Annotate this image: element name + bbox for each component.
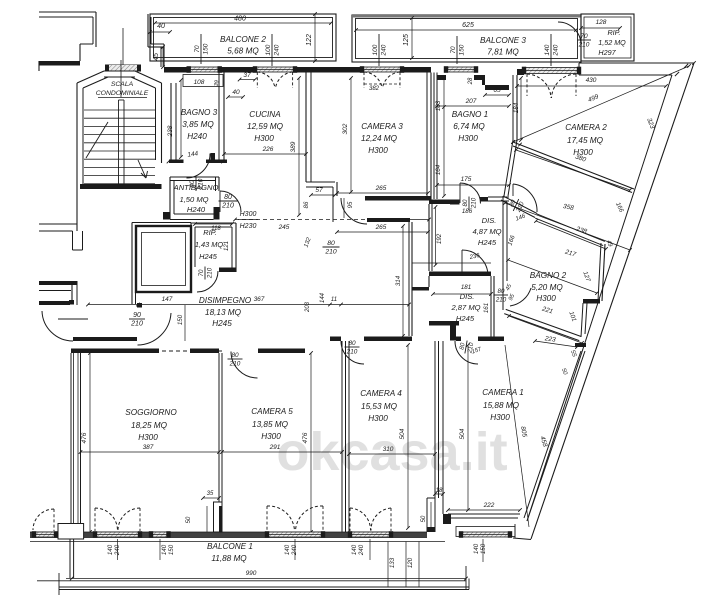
svg-text:CAMERA 3: CAMERA 3 <box>361 122 403 131</box>
label 382 <box>364 84 400 92</box>
svg-text:265: 265 <box>375 224 387 231</box>
svg-text:147: 147 <box>162 296 173 303</box>
door entrance right <box>138 313 172 345</box>
door camera3 bottom <box>341 198 367 224</box>
svg-text:BALCONE 1: BALCONE 1 <box>207 542 253 551</box>
wall stair enclosure <box>77 71 162 231</box>
dim 121 rip1 <box>224 241 230 251</box>
svg-text:430: 430 <box>586 77 597 84</box>
wall corridor left <box>132 223 191 305</box>
dim 50 cam4jog <box>421 502 431 527</box>
svg-text:150: 150 <box>168 544 175 555</box>
wall camera1 right diagonal <box>524 351 585 521</box>
door bagno2 <box>510 288 531 306</box>
dim 358 corridor diag <box>503 201 632 252</box>
room label CAMERA 4 <box>360 389 402 423</box>
dim 504 camera4 <box>399 343 410 530</box>
wall camera4 top <box>330 337 412 342</box>
wall divider cam4-cam1 <box>435 341 443 532</box>
svg-text:H240: H240 <box>187 205 206 214</box>
svg-text:H245: H245 <box>212 319 232 328</box>
svg-text:990: 990 <box>246 570 257 577</box>
svg-text:BAGNO 3: BAGNO 3 <box>181 108 218 117</box>
wall bagno1 bottom <box>429 197 509 205</box>
stairs arrow <box>138 160 148 178</box>
wall entrance blocks <box>69 300 142 308</box>
wall stair stub below <box>73 231 83 250</box>
svg-text:210: 210 <box>495 296 507 303</box>
dim 133 120 <box>388 542 419 588</box>
dim 221 bagno2 <box>507 305 584 344</box>
svg-text:SCALA: SCALA <box>111 81 134 88</box>
wall dis2 top <box>412 272 491 291</box>
svg-text:H300: H300 <box>254 134 274 143</box>
dim 245 lobby <box>233 218 431 231</box>
svg-text:15,53 MQ: 15,53 MQ <box>361 402 398 411</box>
svg-text:86: 86 <box>304 201 310 208</box>
svg-text:CAMERA 5: CAMERA 5 <box>251 407 293 416</box>
svg-text:80: 80 <box>224 194 232 201</box>
svg-text:181: 181 <box>461 284 471 291</box>
room label CUCINA <box>247 110 284 143</box>
svg-text:210: 210 <box>206 267 213 279</box>
svg-text:17,45 MQ: 17,45 MQ <box>567 136 604 145</box>
svg-text:90: 90 <box>133 312 141 319</box>
balcone1 rails <box>37 581 469 590</box>
dim window bagno1 <box>450 36 465 64</box>
dim 236 dis2 door <box>468 252 481 261</box>
wall cam4 jog bottom <box>427 498 435 532</box>
svg-text:210: 210 <box>578 41 590 48</box>
dim 80/210 camera1 door <box>458 339 483 355</box>
balcone 3 outline <box>352 15 581 62</box>
svg-text:1,43 MQ: 1,43 MQ <box>195 240 224 249</box>
svg-text:210: 210 <box>229 360 241 367</box>
dim 86 jog <box>304 201 310 208</box>
dim 80 bagno1 door <box>462 197 478 216</box>
wall soggiorno top <box>71 349 225 354</box>
svg-text:BAGNO 2: BAGNO 2 <box>530 271 567 280</box>
svg-text:12,24 MQ: 12,24 MQ <box>361 134 398 143</box>
svg-text:100: 100 <box>265 44 272 55</box>
dim 122 balcone 2 <box>306 12 317 63</box>
dim 100/240 window camera3 <box>372 34 387 66</box>
svg-text:18: 18 <box>436 488 443 494</box>
svg-text:210: 210 <box>130 320 143 327</box>
door leaves camera3 window <box>364 72 400 88</box>
svg-text:133: 133 <box>389 557 396 568</box>
svg-text:H300: H300 <box>458 134 478 143</box>
svg-text:3,85 MQ: 3,85 MQ <box>182 120 214 129</box>
dim 35 notch <box>201 491 221 500</box>
svg-text:BALCONE 3: BALCONE 3 <box>480 36 526 45</box>
label H300 H230 <box>238 211 258 230</box>
room label CAMERA 5 <box>251 407 293 441</box>
door entrance left <box>42 311 73 341</box>
balcone 2 outline <box>150 14 336 61</box>
dim 430 camera2 <box>515 77 668 88</box>
dim 499 camera2 diagonal <box>511 64 691 144</box>
dim 990 balcone1 <box>66 570 468 580</box>
wall bagno3 right <box>219 73 224 164</box>
svg-text:140: 140 <box>107 544 114 555</box>
svg-text:125: 125 <box>403 34 410 46</box>
svg-text:240: 240 <box>380 44 387 56</box>
door leaf dash <box>58 318 88 320</box>
door bagno1 <box>460 183 481 204</box>
dim 380 camera2 <box>514 148 632 192</box>
room label BAGNO 1 <box>452 110 488 143</box>
svg-text:203: 203 <box>305 301 311 313</box>
dim 50 notch <box>186 506 207 532</box>
dim 80/210 corridor door <box>507 196 527 222</box>
dim window camera2 <box>544 34 559 66</box>
door rip2-balcone3 <box>558 22 581 45</box>
wall rip1 <box>191 223 236 272</box>
room label RIP 1,52 <box>598 28 626 57</box>
dim 57 jog <box>309 187 337 197</box>
wall camera2 top <box>517 63 694 75</box>
dim chain disimpegno <box>86 292 411 313</box>
door leaves camera4 window <box>350 508 391 531</box>
svg-text:11,88 MQ: 11,88 MQ <box>211 554 247 563</box>
svg-text:H300: H300 <box>240 211 257 218</box>
svg-text:12,59 MQ: 12,59 MQ <box>247 122 284 131</box>
svg-text:40: 40 <box>157 23 165 30</box>
dim 291 camera5 <box>220 444 344 454</box>
wall bagno2 bottom diagonal <box>504 309 581 340</box>
dim 161 dis2 <box>483 303 490 313</box>
svg-text:108: 108 <box>194 79 205 86</box>
balcone1 ends <box>59 566 469 595</box>
svg-text:BAGNO 1: BAGNO 1 <box>452 110 488 119</box>
svg-text:DISIMPEGNO: DISIMPEGNO <box>199 296 252 305</box>
door camera5 <box>231 352 258 379</box>
svg-text:2,87 MQ: 2,87 MQ <box>450 303 480 312</box>
svg-text:70: 70 <box>580 33 588 40</box>
door leaves soggiorno window <box>95 508 140 531</box>
svg-text:H245: H245 <box>478 238 497 247</box>
room label BAGNO 3 <box>181 108 218 141</box>
room label BALCONE 1 <box>207 542 253 563</box>
svg-text:476: 476 <box>81 432 88 443</box>
line H300 H230 dashed <box>235 219 429 221</box>
svg-text:50: 50 <box>421 515 427 522</box>
svg-text:240: 240 <box>358 544 365 556</box>
svg-text:164: 164 <box>435 164 442 175</box>
wall bagno2 top diagonal <box>535 214 605 246</box>
dim 166 dis1 <box>507 234 517 247</box>
wall camera2 bottom diagonal <box>513 142 634 193</box>
wall top band left <box>164 67 431 77</box>
wall cucina right <box>306 73 311 183</box>
room label CAMERA 1 <box>482 388 524 422</box>
svg-text:476: 476 <box>302 432 309 443</box>
dim 80/210 antibagno door <box>219 194 238 209</box>
svg-text:100: 100 <box>372 44 379 55</box>
svg-text:ANTIBAGNO: ANTIBAGNO <box>173 183 219 192</box>
room label CAMERA 3 <box>361 122 403 155</box>
corner marks top right <box>675 61 696 76</box>
dim 480 balcone 2 <box>153 16 333 25</box>
svg-text:245: 245 <box>278 224 290 231</box>
door leaves cucina window <box>257 72 292 88</box>
dim 101 bagno2 <box>567 310 577 322</box>
svg-text:140: 140 <box>161 544 168 555</box>
dim 125 balcone 3 <box>403 16 414 60</box>
door leaves camera5 window <box>267 506 323 531</box>
svg-text:150: 150 <box>458 44 465 55</box>
svg-text:80: 80 <box>327 240 335 247</box>
svg-text:150: 150 <box>480 543 487 554</box>
door leaves camera2 window <box>527 74 576 96</box>
svg-text:6,74 MQ: 6,74 MQ <box>453 122 485 131</box>
room label RIP 1,43 <box>195 228 224 261</box>
window bagno1 140/150 <box>444 66 478 73</box>
svg-text:210: 210 <box>324 248 337 255</box>
svg-text:50: 50 <box>186 516 192 523</box>
wall camera3 right <box>427 73 431 202</box>
door antibagno right <box>220 191 241 212</box>
dim 476 soggiorno <box>81 351 92 534</box>
svg-text:H297: H297 <box>598 48 616 57</box>
svg-text:40: 40 <box>232 89 240 96</box>
dim 217 bagno2 <box>506 248 599 294</box>
svg-text:480: 480 <box>234 16 246 23</box>
svg-text:265: 265 <box>375 185 387 192</box>
wall antibagno <box>163 177 220 220</box>
door dis2 top <box>462 250 488 276</box>
svg-text:H300: H300 <box>490 413 510 422</box>
wall bagno2 right <box>581 243 605 337</box>
wall left stub <box>39 61 80 71</box>
dim 302 camera3 left <box>342 76 353 194</box>
dim 132 jog <box>304 236 313 248</box>
dim 314 corridor <box>395 224 405 338</box>
svg-text:13,85 MQ: 13,85 MQ <box>252 420 289 429</box>
dim 40 top <box>148 23 172 34</box>
svg-text:367: 367 <box>254 296 265 303</box>
wall top-left lobby roof <box>39 12 96 61</box>
svg-text:70: 70 <box>450 46 457 54</box>
wall passage to stair <box>39 224 77 231</box>
svg-text:150: 150 <box>202 43 209 54</box>
dim 49 bagno2 <box>605 240 613 249</box>
svg-text:240: 240 <box>273 44 280 56</box>
svg-text:302: 302 <box>342 123 349 134</box>
svg-text:CAMERA 1: CAMERA 1 <box>482 388 524 397</box>
dim 265 lobby2 <box>335 224 430 234</box>
dim 70/150 window bagno3 <box>194 34 209 64</box>
svg-text:210: 210 <box>346 348 358 355</box>
wall lobby passage <box>39 281 77 305</box>
dim 150 entrance <box>177 305 185 341</box>
window stair top <box>105 65 141 72</box>
dim 40 cucina <box>226 89 245 99</box>
svg-text:140: 140 <box>284 544 291 555</box>
svg-text:45: 45 <box>153 53 160 61</box>
room label BALCONE 2 <box>220 35 266 56</box>
svg-text:80: 80 <box>498 288 505 295</box>
dim 118 rip1 <box>193 222 234 232</box>
svg-text:70: 70 <box>194 45 201 53</box>
svg-text:37: 37 <box>243 72 251 79</box>
door camera1 <box>455 341 478 364</box>
svg-text:DIS.: DIS. <box>460 292 475 301</box>
svg-text:CUCINA: CUCINA <box>249 110 281 119</box>
dim 18 cam4jog <box>433 488 445 496</box>
balcone1 wall foot <box>58 524 84 579</box>
dim 65 bagno1 <box>483 87 511 97</box>
room label CAMERA 2 <box>565 123 607 157</box>
dim 70/210 rip2 <box>577 33 591 48</box>
svg-text:4,87 MQ: 4,87 MQ <box>472 227 501 236</box>
svg-text:192: 192 <box>436 233 443 244</box>
svg-text:CONDOMINIALE: CONDOMINIALE <box>96 90 149 97</box>
wall dis1 left <box>429 204 432 271</box>
svg-text:240: 240 <box>291 544 298 556</box>
svg-text:H300: H300 <box>368 414 388 423</box>
svg-text:H300: H300 <box>138 433 158 442</box>
dim 805 camera1 <box>505 345 529 527</box>
svg-text:15,88 MQ: 15,88 MQ <box>483 401 520 410</box>
wall cucina se jog <box>306 182 337 222</box>
window camera3 100/240 <box>360 66 404 73</box>
svg-text:80: 80 <box>231 352 239 359</box>
dim 37 <box>238 72 257 81</box>
watermark <box>276 422 507 482</box>
svg-text:H240: H240 <box>187 132 207 141</box>
dim 192 dis1 <box>434 205 443 267</box>
dim 127 bagno2 <box>581 270 591 283</box>
stairs treads <box>84 110 155 184</box>
svg-text:7,81 MQ: 7,81 MQ <box>487 48 519 57</box>
dim 226 cucina <box>222 146 308 156</box>
door camera4 <box>341 341 364 364</box>
wall corner bottom right <box>513 524 531 540</box>
dim window labels sogg2 <box>160 539 175 560</box>
svg-text:95: 95 <box>348 201 354 208</box>
window soggiorno 140/240 <box>93 531 142 538</box>
svg-text:314: 314 <box>395 275 402 286</box>
svg-text:70: 70 <box>198 269 205 276</box>
svg-text:H300: H300 <box>536 294 556 303</box>
svg-text:625: 625 <box>462 22 474 29</box>
dim 222 camera1 <box>446 502 522 512</box>
dim 238 bagno2 <box>534 219 608 251</box>
window neighbour partial <box>32 509 58 538</box>
svg-text:504: 504 <box>459 428 466 439</box>
svg-text:207: 207 <box>465 98 477 105</box>
corner mark camera2 <box>511 140 522 146</box>
svg-text:H230: H230 <box>240 223 257 230</box>
svg-text:310: 310 <box>383 446 394 453</box>
wall notch soggiorno <box>214 502 223 532</box>
svg-text:CAMERA 4: CAMERA 4 <box>360 389 402 398</box>
stairs rails <box>119 100 125 184</box>
room label SOGGIORNO <box>125 408 177 442</box>
dim 458 camera1 <box>538 435 548 448</box>
wall bottom band <box>30 532 427 538</box>
svg-text:1,50 MQ: 1,50 MQ <box>179 195 208 204</box>
window bagno3 70/150 <box>187 66 222 73</box>
svg-text:389: 389 <box>290 141 297 152</box>
svg-text:504: 504 <box>399 428 406 439</box>
wall camera1 top jog <box>429 321 504 341</box>
svg-text:RIP.: RIP. <box>607 28 620 37</box>
door bagno3 <box>187 154 211 179</box>
svg-text:222: 222 <box>483 502 495 509</box>
wall bagno1 top <box>437 75 509 90</box>
window camera2 140/240 <box>522 67 581 75</box>
svg-text:35: 35 <box>207 491 214 497</box>
room label BALCONE 3 <box>480 36 526 57</box>
dim window labels cam5 <box>284 539 298 560</box>
svg-text:65: 65 <box>493 87 501 94</box>
wall outer diagonal <box>527 63 694 539</box>
room label DIS 2,87 <box>450 292 480 323</box>
dim 625 balcone 3 <box>354 22 578 32</box>
svg-text:140: 140 <box>473 543 480 554</box>
wall camera5 top <box>190 349 305 354</box>
wall dis2 right <box>491 276 494 338</box>
dim 28 bagno1 <box>468 77 474 85</box>
window soggiorno2 140/150 <box>149 531 171 538</box>
dim 181 dis2 <box>431 284 493 296</box>
dim 90/210 entrance <box>129 312 145 327</box>
wall divider sogg-cam5 <box>219 353 222 502</box>
svg-text:SOGGIORNO: SOGGIORNO <box>125 408 177 417</box>
dim 100/240 window cucina <box>265 34 280 66</box>
wall bagno3 left <box>171 83 176 163</box>
svg-text:5,68 MQ: 5,68 MQ <box>227 47 259 56</box>
wall corridor right <box>409 222 412 336</box>
dim window labels soggiorno <box>107 539 121 560</box>
dim 70/210 rip1 <box>198 267 213 280</box>
dim 95 jog <box>344 198 354 218</box>
dim 265 camera3 <box>335 185 430 195</box>
wall soggiorno left <box>71 353 81 524</box>
room rip2 outline <box>581 14 634 61</box>
wall lobby right step <box>148 14 164 67</box>
room label SCALA <box>96 81 149 98</box>
svg-text:80: 80 <box>348 340 356 347</box>
svg-text:80: 80 <box>462 199 469 206</box>
room label DIS 4,87 <box>472 216 501 247</box>
room label BAGNO 2 <box>530 271 567 303</box>
svg-text:387: 387 <box>143 444 154 451</box>
svg-text:140: 140 <box>351 544 358 555</box>
svg-text:122: 122 <box>306 34 313 46</box>
svg-text:5,20 MQ: 5,20 MQ <box>531 283 563 292</box>
door rip1 <box>197 271 218 292</box>
svg-text:DIS.: DIS. <box>482 216 497 225</box>
dim 184 camera2 left <box>513 76 523 142</box>
svg-text:18,13 MQ: 18,13 MQ <box>205 308 242 317</box>
wall bottom camera1 <box>443 514 520 524</box>
window camera4 140/240 <box>348 531 393 538</box>
svg-text:CAMERA 2: CAMERA 2 <box>565 123 607 132</box>
dim 80/210 camera3 door <box>323 240 340 255</box>
door arcs camera5 window <box>267 506 323 531</box>
door arcs camera3 window <box>364 72 400 88</box>
svg-text:28: 28 <box>468 77 474 85</box>
window camera5 140/240 <box>265 531 325 538</box>
elevator <box>136 226 191 292</box>
room label DISIMPEGNO <box>199 296 252 328</box>
svg-text:161: 161 <box>483 303 490 313</box>
wall camera3 bottom <box>365 196 431 222</box>
